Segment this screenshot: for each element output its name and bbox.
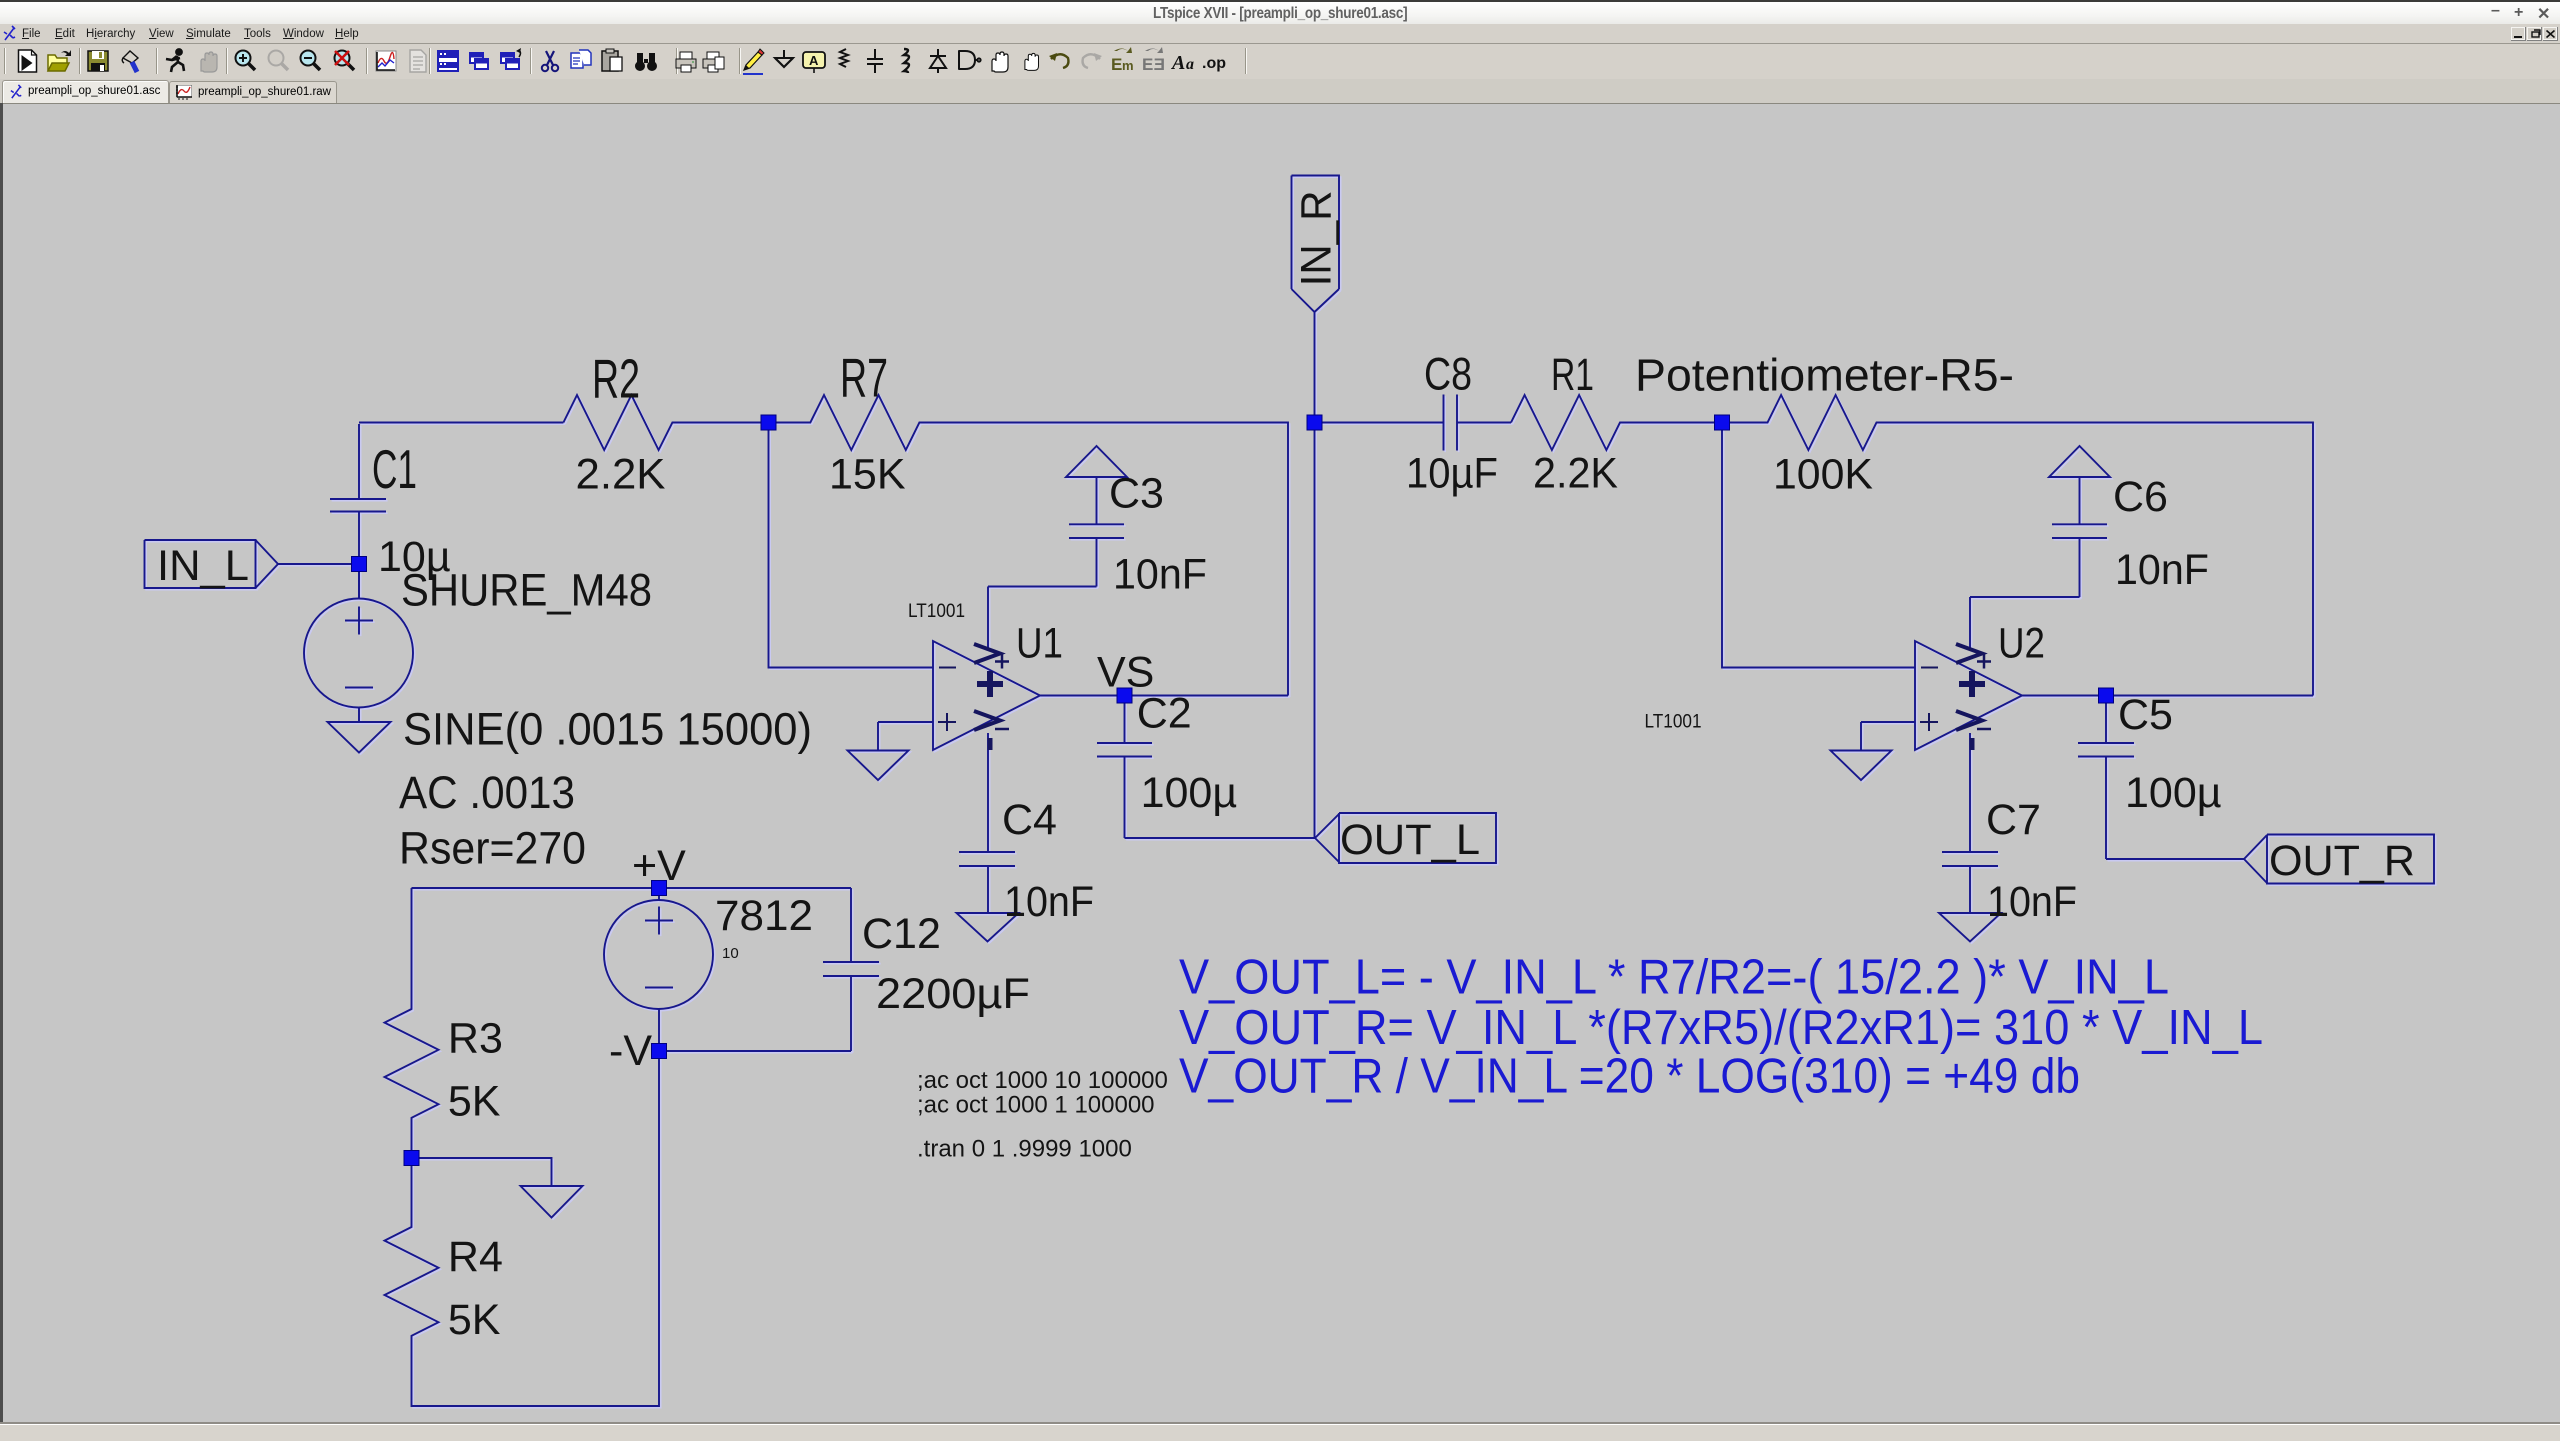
svg-text:10µ: 10µ (378, 533, 451, 581)
svg-text:10: 10 (722, 945, 739, 962)
svg-text:C3: C3 (1109, 470, 1164, 518)
svg-text:C12: C12 (862, 910, 941, 958)
svg-text:IN_L: IN_L (157, 542, 249, 590)
svg-text:C1: C1 (372, 438, 417, 500)
svg-text:C6: C6 (2113, 473, 2168, 521)
svg-text:U1: U1 (1016, 620, 1063, 668)
svg-text:-V: -V (609, 1027, 652, 1075)
svg-text:V_OUT_R / V_IN_L =20 * LOG(310: V_OUT_R / V_IN_L =20 * LOG(310) = +49 db (1179, 1050, 2080, 1104)
svg-text:10µF: 10µF (1406, 450, 1498, 498)
svg-text:R7: R7 (840, 347, 888, 409)
svg-text:R3: R3 (448, 1015, 503, 1063)
svg-text:5K: 5K (448, 1078, 501, 1126)
svg-text:E: E (1142, 55, 1153, 74)
svg-text:A: A (809, 53, 819, 68)
svg-text:100µ: 100µ (2125, 769, 2222, 817)
svg-text:R4: R4 (448, 1233, 503, 1281)
svg-text:IN_R: IN_R (1293, 190, 1341, 286)
svg-text:V_OUT_R= V_IN_L *(R7xR5)/(R2x: V_OUT_R= V_IN_L *(R7xR5)/(R2xR1)= 310 * … (1179, 1001, 2263, 1055)
svg-text:SINE(0 .0015 15000): SINE(0 .0015 15000) (403, 704, 812, 755)
svg-text:Potentiometer-R5-: Potentiometer-R5- (1635, 350, 2014, 401)
svg-text:2.2K: 2.2K (1533, 450, 1618, 498)
svg-text:10nF: 10nF (1004, 878, 1094, 926)
svg-text:C8: C8 (1424, 349, 1472, 400)
svg-text:E: E (1111, 55, 1122, 74)
svg-text:E: E (1154, 55, 1165, 74)
svg-text:V_OUT_L= - V_IN_L * R7/R2=-( 1: V_OUT_L= - V_IN_L * R7/R2=-( 15/2.2 )* V… (1179, 951, 2169, 1005)
svg-text:5K: 5K (448, 1296, 501, 1344)
svg-text:2.2K: 2.2K (576, 451, 666, 499)
svg-text:10nF: 10nF (1987, 878, 2077, 926)
svg-text:2200µF: 2200µF (876, 970, 1030, 1018)
svg-text:LT1001: LT1001 (908, 601, 965, 622)
svg-text:;ac oct 1000 10 100000: ;ac oct 1000 10 100000 (917, 1067, 1168, 1094)
svg-text:U2: U2 (1998, 620, 2045, 668)
svg-text:C2: C2 (1137, 690, 1192, 738)
svg-text:10nF: 10nF (2115, 546, 2209, 594)
svg-text:AC .0013: AC .0013 (399, 767, 575, 818)
svg-text:m: m (1122, 58, 1134, 73)
svg-text:LT1001: LT1001 (1645, 712, 1702, 733)
svg-text:.op: .op (1202, 55, 1226, 72)
svg-text:7812: 7812 (715, 892, 813, 940)
svg-text:100K: 100K (1773, 451, 1873, 499)
svg-text:15K: 15K (829, 451, 906, 499)
svg-text:A: A (1170, 52, 1185, 74)
svg-text:+V: +V (632, 842, 686, 890)
svg-text:10nF: 10nF (1113, 551, 1207, 599)
svg-text:a: a (1186, 56, 1194, 73)
svg-text:C7: C7 (1986, 796, 2041, 844)
svg-text:OUT_L: OUT_L (1340, 816, 1480, 864)
svg-text:OUT_R: OUT_R (2269, 837, 2415, 885)
svg-text:;ac oct 1000 1 100000: ;ac oct 1000 1 100000 (917, 1092, 1155, 1119)
svg-text:R1: R1 (1551, 349, 1594, 400)
svg-text:100µ: 100µ (1141, 769, 1238, 817)
svg-text:C4: C4 (1002, 796, 1057, 844)
svg-text:Rser=270: Rser=270 (399, 823, 586, 874)
svg-text:C5: C5 (2118, 691, 2173, 739)
svg-text:.tran 0 1 .9999 1000: .tran 0 1 .9999 1000 (917, 1136, 1132, 1163)
svg-text:R2: R2 (592, 348, 640, 410)
